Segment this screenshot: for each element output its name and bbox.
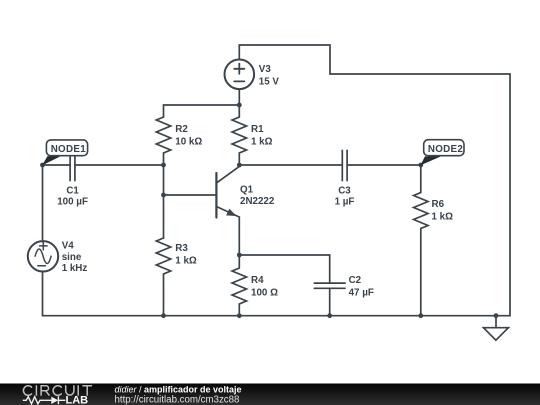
svg-text:1 kΩ: 1 kΩ [432,212,454,223]
svg-text:C2: C2 [349,275,362,286]
svg-text:R6: R6 [432,199,445,210]
node C2 bottom rail junction [327,313,332,318]
node V3 minus junction [237,103,242,108]
wire bottom rail [43,315,511,317]
transistor Q1 [216,165,239,255]
node NODE2 flag [421,140,464,166]
wire node1 down to V4 [42,165,44,241]
svg-text:R3: R3 [175,243,188,254]
node R4 bottom rail junction [237,313,242,318]
svg-text:NODE2: NODE2 [428,144,464,155]
wire V3 minus to R1 R2 top connector [164,89,240,117]
node R6 bottom rail junction [418,313,423,318]
svg-text:15 V: 15 V [259,76,280,87]
node emitter junction [237,253,242,258]
wire V4 minus to bottom rail [42,271,44,315]
svg-text:R4: R4 [251,275,264,286]
node NODE1 flag [42,140,87,166]
svg-text:sine: sine [62,252,82,263]
node R3 bottom rail junction [161,313,166,318]
svg-text:1 kΩ: 1 kΩ [251,137,273,148]
node collector junction [237,163,242,168]
svg-text:R2: R2 [175,124,188,135]
svg-text:Q1: Q1 [240,185,254,196]
svg-text:1 kHz: 1 kHz [62,263,88,274]
svg-text:C1: C1 [66,185,79,196]
resistor R3 [156,238,170,316]
wire C3 to node2 [347,164,421,166]
svg-text:1 kΩ: 1 kΩ [175,256,197,267]
node base tap junction [161,193,166,198]
svg-text:2N2222: 2N2222 [240,196,275,207]
ground [484,316,509,341]
voltage source V4 [28,241,58,271]
capacitor C3 [342,150,347,180]
svg-text:V3: V3 [259,64,272,75]
wire R2 bottom down to R3 and base tap [163,165,165,238]
node R2 bottom junction [161,163,166,168]
svg-text:LAB: LAB [66,395,89,405]
svg-text:1 µF: 1 µF [335,197,355,208]
node NODE1 junction [40,163,45,168]
svg-text:47 µF: 47 µF [349,287,374,298]
node ground rail junction [494,313,499,318]
wire base [164,194,217,196]
svg-text:100 Ω: 100 Ω [251,287,278,298]
svg-text:100 µF: 100 µF [57,197,88,208]
wire top from V3 plus terminal [239,45,510,316]
resistor R2 [156,117,170,165]
svg-text:R1: R1 [251,124,264,135]
capacitor C1 [70,150,75,180]
wire collector row to C3 [239,164,342,166]
svg-text:10 kΩ: 10 kΩ [175,137,202,148]
svg-text:http://circuitlab.com/cm3zc88: http://circuitlab.com/cm3zc88 [115,395,240,405]
footer bar [0,384,540,405]
svg-text:NODE1: NODE1 [51,144,87,155]
logo circuitlab [23,386,92,405]
svg-text:C3: C3 [338,185,351,196]
resistor R1 [232,105,246,165]
resistor R4 [232,255,246,316]
wire node1 row [43,164,164,166]
svg-text:didier / amplificador de volta: didier / amplificador de voltaje [115,384,242,394]
capacitor C2 [314,283,345,288]
svg-text:V4: V4 [62,240,75,251]
node NODE2 junction [418,163,423,168]
wire emitter row to C2 [239,255,329,283]
voltage source V3 [225,60,255,90]
footer credit text [115,384,242,405]
resistor R6 [414,165,428,316]
wire C2 bottom [329,288,331,315]
